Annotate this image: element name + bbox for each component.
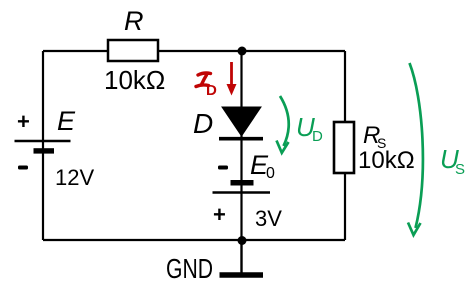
battery E0 [213, 150, 283, 231]
svg-text:E: E [57, 106, 76, 136]
node B (bottom junction) [238, 236, 247, 245]
wire top [43, 50, 345, 52]
wire left [42, 51, 44, 240]
svg-text:S: S [455, 161, 465, 178]
voltage arrow US [408, 63, 465, 235]
svg-text:3V: 3V [255, 206, 282, 231]
svg-text:10kΩ: 10kΩ [358, 147, 415, 174]
svg-text:D: D [312, 128, 323, 145]
svg-text:R: R [124, 6, 144, 36]
resistor RS [334, 122, 415, 174]
diode D [193, 107, 263, 139]
node A (top junction) [238, 47, 247, 56]
wire bottom [43, 239, 345, 241]
svg-text:12V: 12V [55, 165, 94, 190]
battery E [15, 106, 95, 190]
wire right bottom [344, 173, 346, 240]
svg-text:D: D [193, 108, 213, 139]
resistor R1 [104, 6, 165, 95]
wire right top [344, 51, 346, 122]
wire diode branch [240, 51, 242, 240]
svg-text:D: D [206, 82, 217, 99]
svg-text:+: + [17, 109, 30, 134]
svg-text:+: + [213, 202, 226, 227]
current arrow ID [196, 62, 237, 99]
svg-text:GND: GND [166, 253, 213, 284]
svg-text:0: 0 [266, 165, 275, 182]
svg-text:10kΩ: 10kΩ [104, 65, 165, 95]
ground [166, 240, 263, 284]
voltage arrow UD [277, 96, 324, 153]
